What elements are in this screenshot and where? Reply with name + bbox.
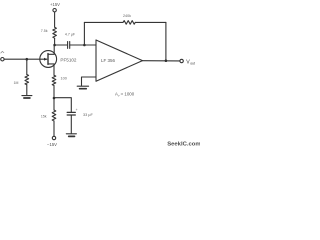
transistor Q1 source stub xyxy=(48,64,54,75)
transistor Q1 drain stub xyxy=(48,45,54,54)
wire R3 to ground xyxy=(26,85,28,96)
resistor R5 15k lead xyxy=(53,98,55,110)
wire R5 to -15V terminal xyxy=(53,121,55,136)
svg-text:LF 356: LF 356 xyxy=(101,58,116,63)
wire C1 to op-amp inverting input xyxy=(70,44,96,46)
wire feedback vertical left xyxy=(83,22,85,45)
wire R4 to source node xyxy=(53,86,55,99)
+15V supply terminal xyxy=(53,9,56,12)
ground (C2) xyxy=(66,133,76,135)
output terminal Vout xyxy=(180,59,183,62)
wire source node to C2 xyxy=(54,98,71,112)
wire feedback top right segment xyxy=(135,21,166,23)
svg-text:15k: 15k xyxy=(41,115,47,119)
op-amp U1 LF356 triangle xyxy=(96,40,143,81)
ground (input R3) xyxy=(22,95,32,97)
junction output node xyxy=(165,59,168,62)
transistor Q1 gate lead inside xyxy=(40,58,47,60)
capacitor C1 4.7uF xyxy=(67,42,69,49)
svg-text:SeekIC.com: SeekIC.com xyxy=(167,142,200,148)
-15V supply terminal xyxy=(52,136,55,139)
wire R1 to drain node xyxy=(54,38,56,45)
svg-text:+: + xyxy=(76,108,78,112)
ground (op-amp + input) xyxy=(77,85,88,87)
wire feedback vertical right to output node xyxy=(165,22,167,60)
capacitor C2 33uF plates xyxy=(67,111,75,113)
svg-text:240k: 240k xyxy=(123,14,131,18)
input terminal xyxy=(1,58,4,61)
svg-text:−15V: −15V xyxy=(47,142,57,147)
svg-text:7.5k: 7.5k xyxy=(41,29,48,33)
transistor Q1 PF5102 circle xyxy=(40,51,57,68)
junction feedback/input node xyxy=(83,44,86,47)
resistor R3 1M vertical lead xyxy=(26,59,28,74)
resistor R4 100 xyxy=(52,75,56,85)
svg-text:+15V: +15V xyxy=(50,2,60,7)
input caret mark xyxy=(1,51,5,53)
resistor R1 7.5k xyxy=(53,27,57,38)
svg-text:4.7 μF: 4.7 μF xyxy=(65,32,76,36)
wire non-inverting input to ground xyxy=(82,77,97,86)
svg-text:33 μF: 33 μF xyxy=(83,113,93,117)
junction source node xyxy=(53,97,56,100)
wire +15V to R1 xyxy=(54,12,56,27)
wire op-amp output xyxy=(143,60,180,62)
resistor R5 15k xyxy=(52,110,56,121)
junction drain/C1 node xyxy=(53,44,56,47)
resistor R2 240k xyxy=(123,21,135,25)
resistor R3 1M xyxy=(25,75,29,85)
svg-text:100: 100 xyxy=(61,77,67,81)
wire feedback top left segment xyxy=(84,21,123,23)
svg-text:1M: 1M xyxy=(14,81,19,85)
wire C2 to ground xyxy=(70,116,72,134)
svg-text:PF5102: PF5102 xyxy=(60,57,77,62)
svg-text:out: out xyxy=(190,62,195,66)
transistor Q1 gate arrowhead xyxy=(44,58,47,61)
svg-text:≈ 1000: ≈ 1000 xyxy=(121,91,135,96)
transistor Q1 channel bar xyxy=(47,54,49,65)
wire drain node to C1 xyxy=(55,44,67,46)
wire input to gate xyxy=(4,58,40,60)
junction input/gate node xyxy=(26,58,29,61)
